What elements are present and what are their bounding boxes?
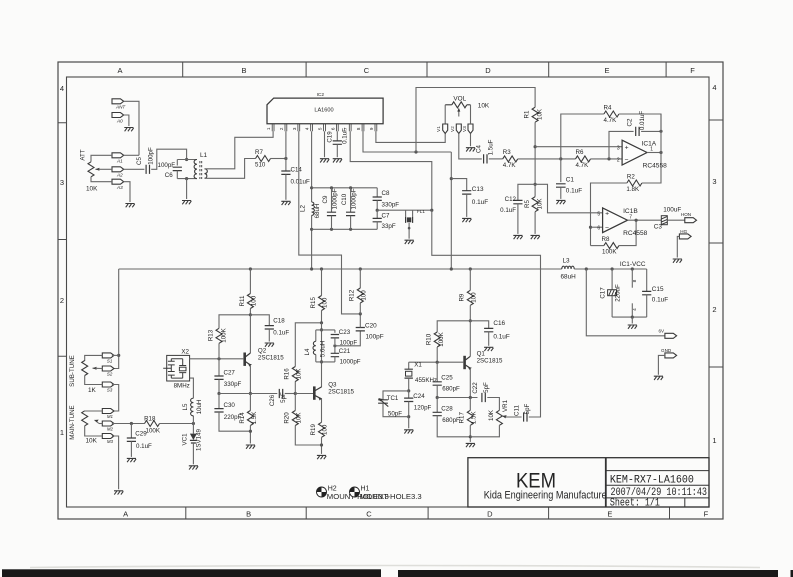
ground R19 [317,455,326,459]
svg-text:1: 1 [266,127,271,130]
svg-text:R2: R2 [627,173,635,180]
wire bias to IC1B + input [535,184,603,213]
potentiometer MAIN-TUNE 10K [82,411,88,426]
svg-text:S2: S2 [107,372,113,377]
wire emitter node line [437,397,477,399]
svg-text:100pF: 100pF [366,333,384,340]
svg-text:R7: R7 [255,149,263,156]
resistor R19 100 [319,422,325,437]
transistor Q2 2SC1815 [249,315,251,353]
svg-text:C27: C27 [224,370,236,377]
svg-text:10K: 10K [537,108,544,120]
svg-text:2: 2 [279,127,284,130]
junction R8 output [635,219,638,222]
ground FL1 [405,240,414,244]
wire L1 secondary to pin1 of IC2 [205,131,274,169]
ground C29 [127,458,136,462]
svg-text:R10: R10 [426,333,433,345]
junction R10 base [436,361,439,364]
wire tank mid to C20 [335,331,360,346]
svg-text:1: 1 [60,428,64,437]
junction R11 C18 node [249,313,252,316]
resistor R2 1.8K [627,180,642,186]
svg-text:220uF: 220uF [615,284,622,302]
svg-text:3: 3 [712,177,716,186]
wire V2 to C4 [459,134,482,159]
connector A0 [112,113,124,118]
svg-text:IC1-VCC: IC1-VCC [620,261,646,268]
svg-text:1.5K: 1.5K [251,411,258,425]
svg-text:C14: C14 [291,166,303,173]
capacitor C25 680pF [436,362,438,382]
resistor R17 1.5K [469,398,471,411]
ground VC1 [189,466,198,470]
wire L1 secondary to R7 [205,159,256,179]
svg-text:KEM-RX7-LA1600: KEM-RX7-LA1600 [610,474,694,486]
connector GND [665,353,677,358]
connector V3 [468,124,473,134]
svg-text:C5: C5 [136,156,143,164]
svg-text:1.8K: 1.8K [626,186,640,193]
svg-text:C8: C8 [382,190,390,197]
svg-text:0.1uF: 0.1uF [472,199,488,206]
svg-text:Q2: Q2 [258,347,267,354]
svg-text:0.01uF: 0.01uF [291,179,310,186]
wire M1 to MAIN-TUNE pot [85,410,103,412]
junction C29 tap [130,422,133,425]
junction Q2 emitter node [249,392,252,395]
svg-text:10K: 10K [488,409,495,421]
svg-text:X1: X1 [414,361,422,368]
svg-text:R4: R4 [604,104,612,111]
svg-text:10K: 10K [478,102,490,109]
wire output to R2 [642,114,661,183]
potentiometer VOL 10K [445,104,452,106]
svg-text:Q3: Q3 [328,382,337,389]
wire R7 to pin2 [271,158,286,160]
svg-text:R11: R11 [239,295,246,306]
op IC2 LA1600 body [267,98,383,124]
svg-text:L3: L3 [563,257,571,264]
ground A0 [124,128,133,132]
svg-text:4: 4 [60,84,64,93]
connector A2 [112,167,124,172]
capacitor C4 1.5uF [484,154,487,163]
ground pin5 [320,159,329,163]
inductor L1 primary winding [194,160,197,179]
border row ticks left [58,123,67,357]
svg-text:100uF: 100uF [663,206,681,213]
potentiometer ATT 10K [88,162,94,177]
svg-text:10K: 10K [86,438,98,445]
resistor R3 4.7K [503,156,518,162]
capacitor C1 0.1uF [560,159,562,182]
resistor R4 4.7K [604,111,619,117]
svg-text:C19: C19 [326,131,333,143]
wire tank top rail [177,159,197,161]
svg-text:D: D [485,66,491,75]
ground C16 [484,347,493,351]
svg-text:2SC1815: 2SC1815 [477,357,503,364]
connector M3 [102,434,114,439]
svg-text:3: 3 [292,127,297,130]
wire Q3 collector line [321,323,323,388]
svg-text:2: 2 [60,296,64,305]
svg-text:ANT: ANT [115,105,126,110]
mount hole H2 [317,487,327,497]
svg-text:455KHz: 455KHz [415,377,437,384]
svg-text:1: 1 [712,436,716,445]
svg-text:100pF: 100pF [148,147,155,165]
resistor R14 1.5K [249,394,251,411]
svg-text:R5: R5 [524,199,531,207]
svg-text:IC2: IC2 [317,92,325,98]
resistor R15 100 [321,269,323,296]
wire R5 to ground [534,212,536,234]
svg-text:100: 100 [322,297,329,308]
capacitor C28 680pF [436,398,438,413]
wire rail left end down to S1 [112,269,119,369]
inductor L5 10uH [192,416,194,424]
resistor R5 10K [532,197,538,212]
svg-text:10uH: 10uH [196,400,203,415]
wire pin8 to right [363,131,451,152]
wire C2 to output node [641,130,661,132]
wire pin2 of IC2 down [285,131,287,158]
junction tank rails [330,186,352,231]
svg-text:LA1600: LA1600 [314,107,333,113]
connector A1 [112,153,124,158]
potentiometer SUB-TUNE 1K [82,361,88,376]
svg-text:C16: C16 [493,320,505,327]
svg-text:S1: S1 [107,358,113,363]
svg-text:C20: C20 [365,322,377,329]
crystal X1 455KHz [408,362,410,369]
svg-text:HON: HON [681,212,691,217]
svg-text:C7: C7 [382,212,390,219]
capacitor C5 100pF [146,165,149,174]
svg-text:2: 2 [617,158,620,164]
resistor R18 100K [145,421,160,427]
capacitor C6 100pF [176,160,178,166]
title block outline [468,458,709,507]
svg-text:0.1uF: 0.1uF [493,334,509,341]
svg-text:5pF: 5pF [280,392,287,403]
junction C2 R4 output [659,130,662,133]
capacitor C12 0.1uF [513,200,522,203]
svg-text:1.5K: 1.5K [471,411,478,425]
svg-text:R6: R6 [576,149,584,156]
svg-text:50pF: 50pF [388,410,402,417]
svg-text:C17: C17 [600,287,607,299]
svg-text:M3: M3 [107,439,114,444]
wire S1 to bus [112,354,119,356]
svg-text:V2: V2 [450,126,455,132]
capacitor C19 0.1uF on pin6 [336,131,338,141]
svg-text:IC1B: IC1B [623,208,638,215]
capacitor C10 1000pF [350,188,352,212]
svg-text:A: A [117,66,122,75]
svg-text:C18: C18 [273,317,285,324]
inductor L1 core [200,161,202,179]
svg-text:+: + [625,145,629,152]
junction C27 C30 node [217,392,220,395]
ground C24 [404,430,413,434]
ground GND connector [654,376,663,380]
svg-text:4: 4 [712,83,716,92]
wire IC1 vcc bottom rail [612,316,647,318]
wire A1 right [124,154,139,156]
capacitor C18 0.1uF [250,315,269,326]
svg-text:0.01uF: 0.01uF [639,111,646,130]
svg-text:R20: R20 [284,412,291,424]
capacitor C20 100pF [356,328,365,331]
svg-text:VOL: VOL [453,96,466,103]
svg-text:3: 3 [60,178,64,187]
border row ticks right [709,120,723,367]
junction R6 C2 node [607,157,610,160]
svg-text:2SC1815: 2SC1815 [258,354,284,361]
capacitor C11 5pF [524,412,527,421]
wire S2 to wiper [96,367,103,369]
junction S1 bus [117,354,120,357]
wire M3 to pot bottom [85,426,103,436]
svg-text:100K: 100K [438,331,445,346]
svg-text:1000pF: 1000pF [340,359,361,366]
svg-text:R8: R8 [602,236,610,243]
resistor R1 10K [532,107,538,122]
junction R9 node [469,319,472,322]
wire pin8 down to supply rail [450,152,452,269]
transistor Q3 2SC1815 [313,386,316,399]
svg-text:100K: 100K [220,327,227,342]
svg-text:A3: A3 [116,185,123,190]
junction IC1A output [659,151,662,154]
svg-text:ATT: ATT [80,149,87,160]
svg-text:R19: R19 [310,424,317,436]
capacitor C24 120pF [408,391,410,398]
svg-text:10K: 10K [86,186,98,193]
wire R4 to output node [619,114,661,131]
mount hole H1 [350,487,360,497]
svg-text:L2: L2 [299,205,306,212]
svg-text:2: 2 [712,305,716,314]
junction C25 C28 node [436,396,439,399]
svg-text:0.1uF: 0.1uF [500,207,516,214]
svg-text:6: 6 [330,127,335,130]
svg-text:100pF: 100pF [158,162,176,169]
svg-text:1000pF: 1000pF [351,188,358,209]
svg-text:V1: V1 [436,126,441,132]
junction R15 collector node [320,321,323,324]
svg-text:C2: C2 [627,118,634,126]
resistor R16 10K [294,381,296,393]
svg-text:C: C [364,66,370,75]
wire R8 to output [619,220,636,245]
svg-text:C15: C15 [652,286,664,293]
resistor R8 100K [604,243,619,249]
junction C30 R14 bottom [249,430,252,433]
svg-text:C9: C9 [322,195,329,203]
crystal X2 8MHz resonator [167,355,190,381]
wire R18 to varactor node [160,423,194,425]
wire M2 to R18 [112,423,145,425]
wire A3 to pot ATT bottom [91,177,112,182]
wire C24 to ground [408,417,410,429]
capacitor C26 5pF [250,393,277,395]
wire R6 to IC1A - input [591,158,623,160]
wire IC1B output to C3 [628,219,662,221]
svg-text:C12: C12 [505,196,517,203]
svg-text:C11: C11 [514,405,521,416]
svg-text:VR1: VR1 [502,399,509,412]
wire VOL right to V3 [470,105,472,124]
svg-text:330pF: 330pF [224,381,242,388]
svg-text:100K: 100K [602,248,617,255]
junction FL1 output [430,209,433,212]
svg-text:0.1uF: 0.1uF [342,128,349,144]
wire C22 to VR1 [487,398,499,411]
wire A2 to wiper [99,168,112,170]
connector V2 [456,124,461,134]
wire vcc bottom to ground [631,317,633,323]
svg-text:C13: C13 [472,186,484,193]
svg-text:0.1uF: 0.1uF [566,187,582,194]
scan artifact paper edge [30,566,760,568]
svg-text:1000pF: 1000pF [332,188,339,209]
junction C24 bottom node [407,415,410,418]
svg-text:C: C [366,510,372,519]
svg-text:M2: M2 [107,427,114,432]
svg-text:1SV149: 1SV149 [196,428,203,451]
wire pin9 to V1 [376,131,445,142]
svg-text:1K: 1K [88,387,97,394]
svg-text:IC1A: IC1A [642,141,657,148]
wire Q3 base [295,393,313,395]
connector 6V [665,333,677,338]
ground IC1-VCC [628,325,637,329]
capacitor C14 0.01uF [285,159,287,171]
svg-text:330pF: 330pF [382,201,400,208]
capacitor C21 1000pF [334,346,336,354]
svg-text:R15: R15 [310,297,317,309]
ground M3 [114,491,123,495]
junction R19 R20 bottom [320,443,323,446]
svg-text:D: D [487,510,493,519]
svg-text:100: 100 [322,424,329,435]
svg-text:680pF: 680pF [442,386,460,393]
capacitor C2 0.01uF [636,127,639,136]
wire L2 tank bottom rail [312,228,378,230]
wire L2 tank top rail [312,187,378,189]
connector V1 [443,124,448,134]
wire C8 node to FL1 and pin7 junction [377,209,432,211]
svg-text:MAIN-TUNE: MAIN-TUNE [69,405,76,439]
svg-text:9: 9 [369,127,374,130]
svg-text:RC4558: RC4558 [623,230,648,237]
svg-text:C25: C25 [441,374,453,381]
svg-text:R14: R14 [239,412,246,424]
connector A3 [112,179,124,184]
junction C13 tap [450,177,453,180]
svg-text:TC1: TC1 [387,395,399,402]
svg-text:510: 510 [255,161,266,168]
junction bias node [534,145,537,186]
svg-text:R1: R1 [524,110,531,118]
ground C13 [462,218,471,222]
junction pin4 tank [310,186,313,231]
wire pin3 route to node A [299,131,361,314]
resistor R7 510 [256,156,271,162]
svg-text:C30: C30 [224,402,236,409]
svg-text:L4: L4 [304,348,311,355]
junction C23 C21 mid [333,344,336,347]
svg-text:A1: A1 [116,159,123,164]
ground C1 [556,200,565,204]
wire S1 to SUB-TUNE pot [85,355,103,361]
svg-text:B: B [241,66,246,75]
svg-text:5.6uH: 5.6uH [319,341,326,358]
junction L5 VC1 node [192,422,195,425]
border inner frame [67,77,710,507]
svg-text:100: 100 [361,290,368,301]
svg-text:C23: C23 [339,329,351,336]
svg-text:SUB-TUNE: SUB-TUNE [69,355,76,387]
ground C18 [265,343,274,347]
capacitor C22 5pF [482,393,485,402]
svg-text:5pF: 5pF [483,382,490,393]
wire FL1 output down to C11 [432,210,541,417]
connector M2 [102,421,114,426]
inductor L2 68uH [312,202,315,215]
wire M3 to ground [112,436,119,489]
resistor R6 4.7K [576,156,591,162]
wire pin7 to FL1 output [350,131,432,210]
connector S3 [102,382,114,387]
svg-text:8MHz: 8MHz [174,382,190,389]
svg-text:C28: C28 [441,405,453,412]
svg-text:0.1uF: 0.1uF [136,443,152,450]
IC1 power pins 8 and 4 stub [631,269,633,288]
svg-text:68uH: 68uH [314,204,321,219]
svg-text:F: F [690,66,695,75]
wire R8 branch [591,245,604,247]
svg-text:−: − [605,225,609,232]
junction IC1B - node [589,226,592,229]
svg-text:C6: C6 [165,172,173,179]
svg-text:4: 4 [632,308,638,311]
svg-text:120pF: 120pF [414,404,432,411]
wire L5 to X2 [190,378,194,398]
border column ticks top [183,62,666,77]
wire supply rail [119,268,562,270]
capacitor C16 0.1uF [470,321,488,329]
ground C12 [513,235,522,239]
junction R3 C1 R4 node [559,157,562,160]
junction pin2 node [284,157,287,160]
IC2 pin legs 1-9 [272,124,377,132]
resistor R9 100 [469,269,471,290]
resistor R20 10K [294,394,296,411]
wire C3 to HON [667,219,685,221]
svg-text:FL1: FL1 [417,209,425,214]
junction tank bottom [185,177,188,180]
svg-text:E: E [607,510,612,519]
connector HON [685,218,697,223]
scan artifact black bar [2,569,793,577]
svg-text:M1: M1 [107,414,114,419]
svg-text:4.7K: 4.7K [604,117,618,124]
